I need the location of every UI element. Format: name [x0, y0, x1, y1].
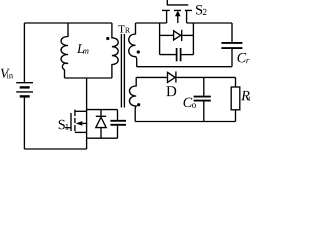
wire S1 snubber top	[87, 109, 118, 111]
inductor Lm	[61, 23, 68, 78]
transformer TR secondary upper	[129, 23, 137, 67]
wire top-right rail left segment	[136, 22, 167, 24]
wire lower-right circuit bottom rail	[135, 121, 235, 123]
label TR	[118, 25, 130, 32]
label Cr	[238, 53, 250, 63]
wire top-right circuit bottom rail	[137, 66, 232, 68]
diode D	[168, 71, 236, 82]
label S1	[59, 120, 69, 130]
transistor S2	[162, 0, 192, 23]
wire node (Lm / primary / S1 drain)	[65, 77, 112, 79]
wire top-right rail right segment	[187, 22, 232, 24]
wire S1 drain drop	[86, 78, 88, 110]
wire top-left rail	[24, 22, 112, 24]
transformer TR primary	[112, 23, 118, 78]
label Co	[184, 98, 196, 108]
battery Vin	[16, 23, 33, 149]
diode DS1 (S1 body diode)	[96, 110, 106, 139]
capacitor Co	[194, 77, 211, 121]
capacitor CS1 (S1 snubber)	[110, 110, 126, 139]
polarity dot secondary upper	[137, 50, 140, 53]
capacitor Cr	[221, 23, 242, 67]
wire S2 snubber left vertical	[159, 23, 161, 55]
resistor Ro	[231, 77, 240, 121]
label Vin	[1, 69, 13, 79]
wire bottom-left rail	[24, 148, 86, 150]
label S2	[196, 5, 206, 15]
wire S1 snubber bottom	[87, 137, 118, 139]
polarity dot primary	[106, 37, 109, 40]
transformer TR secondary lower	[129, 77, 136, 121]
capacitor CS2 (S2 snubber)	[160, 48, 194, 61]
label D	[166, 86, 176, 96]
transformer core	[121, 34, 124, 108]
polarity dot secondary lower	[137, 103, 140, 106]
wire lower-right circuit top rail	[136, 76, 167, 78]
transistor S1	[65, 110, 87, 149]
label Ro	[241, 91, 253, 101]
diode DS2 (S2 clamp diode)	[160, 30, 194, 41]
label Lm	[77, 44, 89, 54]
wire S2 snubber right vertical	[192, 23, 194, 55]
